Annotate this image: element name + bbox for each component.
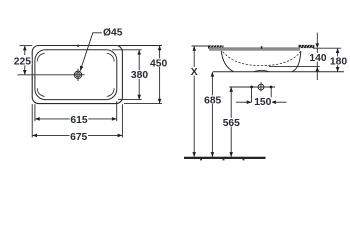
dimension 380 line (138, 50, 140, 100)
arrow 615 right (112, 117, 117, 121)
arrow X top (up) (192, 46, 196, 51)
arrow leader diameter45 (80, 66, 84, 71)
bowl inner corner arc top-left (37, 53, 44, 61)
svg-text:225: 225 (14, 56, 31, 67)
dimension 150 right segment (271, 101, 286, 103)
side view: inner bottom reference line (140 bottom) (269, 66, 320, 68)
mounting bracket right (hatched) (299, 45, 315, 48)
side view: outer profile right curve (292, 51, 301, 72)
basin bowl opening (plan view) (35, 50, 117, 100)
arrow 150 right (pointing left) (271, 100, 276, 104)
side view: top reference line for 140/180 (313, 47, 341, 49)
dimension 685 line (211, 72, 213, 157)
plan top edge center tick (77, 45, 79, 47)
floor line (184, 157, 266, 159)
dimension 225 top extension line (20, 45, 33, 47)
mounting bracket left (hatched) (208, 45, 224, 48)
arrow 180 top (up) (336, 48, 340, 53)
dimension 140 upper tail (316, 33, 318, 44)
side view: basin underside and extension line (213, 71, 344, 73)
dimension 615 extension right (116, 101, 118, 121)
text backgrounds (13, 53, 348, 141)
bolt dot right (270, 86, 273, 89)
dimension 450 line (159, 46, 161, 104)
svg-text:140: 140 (309, 53, 326, 64)
bowl inner corner arc top-right (107, 53, 114, 61)
arrow X bottom (down at floor) (192, 152, 196, 157)
arrow 565 top (up) (229, 87, 233, 92)
side view drain crosshair vertical (260, 82, 262, 91)
dimension 140 lower tail (316, 67, 318, 80)
side view: X dimension line (193, 46, 195, 157)
svg-text:150: 150 (254, 97, 271, 108)
svg-text:X: X (191, 67, 198, 78)
drain inner circle (76, 73, 80, 77)
arrow 380 top (up) (137, 50, 141, 55)
arrow 150 left (pointing right) (247, 100, 252, 104)
dimension 380 extension top (112, 49, 142, 51)
svg-text:675: 675 (70, 132, 87, 143)
dimension 615 line (35, 118, 117, 120)
bolt hole stub right (270, 87, 272, 102)
drain outer circle (74, 71, 81, 78)
dimension 225 line upper segment (24, 46, 26, 55)
basin outer rim (plan view) (32, 46, 122, 104)
svg-text:565: 565 (223, 118, 240, 129)
bowl inner corner arc bottom-left (37, 88, 44, 96)
dimension 150 left segment (236, 101, 252, 103)
drain crosshair vertical (77, 69, 79, 81)
arrow 685 top (up) (211, 72, 215, 77)
arrow 615 left (35, 117, 40, 121)
dimension 450 extension bottom (124, 103, 162, 105)
arrow 450 bottom (down) (158, 99, 162, 104)
arrow 180 bottom (down) (336, 67, 340, 72)
side view: outer profile left curve (221, 51, 233, 72)
arrow 450 top (up) (158, 46, 162, 51)
svg-text:380: 380 (131, 70, 148, 81)
svg-text:450: 450 (150, 58, 167, 69)
ground tick 2 (223, 159, 225, 160)
dimension 675 extension right (121, 104, 123, 137)
dimension 675 extension left (31, 104, 33, 137)
dimension 225 line lower segment (24, 66, 26, 75)
dimension 675 line (32, 134, 122, 136)
side view: drain bump on underside (254, 70, 269, 71)
leader line for diameter 45 (80, 33, 102, 71)
arrow 565 bottom (down at floor) (229, 152, 233, 157)
drain crosshair horizontal / dimension 225 extension line (18, 74, 85, 76)
svg-text:685: 685 (204, 95, 221, 106)
bowl inner corner arc bottom-right (107, 88, 114, 96)
bolt dot left (250, 86, 253, 89)
svg-text:180: 180 (330, 57, 347, 68)
rim band (side view, gray) (209, 47, 300, 50)
side view: inner bowl hidden line (dashed) (223, 52, 300, 66)
dimension 140 middle segment (316, 48, 318, 66)
dimension 180 line (337, 48, 339, 72)
arrow 140 top (down, outside) (316, 43, 320, 48)
svg-text:Ø45: Ø45 (103, 28, 123, 39)
arrow 675 right (118, 134, 123, 138)
rim band center tick (261, 46, 263, 49)
arrow 225 bottom (down) (23, 70, 27, 75)
side view: X top extension line (192, 45, 209, 47)
arrow 140 bottom (up, outside) (316, 67, 320, 72)
arrow 685 bottom (down at floor) (211, 152, 215, 157)
svg-text:615: 615 (70, 115, 87, 126)
dimension 380 extension bottom (118, 99, 142, 101)
arrow 380 bottom (down) (137, 95, 141, 100)
dimension 450 extension top (118, 45, 162, 47)
arrow 675 left (32, 134, 37, 138)
bolt hole stub left (251, 87, 253, 102)
side view: drain center line (229, 86, 275, 88)
ground tick 3 (243, 159, 245, 160)
dimension 565 line (230, 87, 232, 157)
dimension 615 extension left (34, 104, 36, 121)
ground tick 1 (200, 159, 202, 160)
arrow 225 top (up) (23, 46, 27, 51)
side view drain circle (258, 84, 264, 90)
